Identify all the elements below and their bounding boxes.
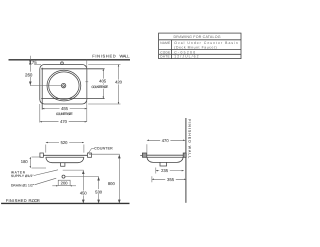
finished wall line (plan) xyxy=(9,59,131,61)
dim 180 xyxy=(29,157,31,168)
basin rim outline (plan) xyxy=(40,65,87,105)
dim 75 / 260 shared vertical xyxy=(29,56,31,86)
counter right cut cap (front) xyxy=(88,153,92,157)
dim 470 (side) xyxy=(147,139,185,141)
svg-text:180: 180 xyxy=(21,159,29,164)
dim 420 xyxy=(118,65,120,105)
svg-text:FINISHED: FINISHED xyxy=(6,198,27,203)
faucet hole xyxy=(61,62,64,65)
rim bottom line (front) xyxy=(46,156,84,158)
counter leader xyxy=(88,149,94,153)
cut-out right edge extension line (wall to 470 dim) xyxy=(86,60,88,122)
svg-text:520: 520 xyxy=(61,140,69,145)
counter top line (side) xyxy=(147,154,186,156)
svg-text:COUNTER SIZE: COUNTER SIZE xyxy=(56,112,74,116)
svg-text:420: 420 xyxy=(115,80,123,85)
svg-text:FINISHED WALL: FINISHED WALL xyxy=(188,119,192,158)
bowl inner ellipse xyxy=(49,72,79,99)
centerline to drain xyxy=(30,85,61,87)
svg-text:450: 450 xyxy=(80,191,88,196)
water supply leader xyxy=(34,170,58,176)
dim 235 extension xyxy=(155,168,157,174)
dim 470 xyxy=(40,121,87,123)
supply height line + dim 530 xyxy=(65,177,98,204)
dim 355 extension xyxy=(151,176,153,182)
dim 470 (side) extension xyxy=(146,144,148,152)
rim bottom line (side) xyxy=(147,156,183,158)
svg-text:405: 405 xyxy=(99,79,107,84)
table header text xyxy=(174,35,221,39)
dim text 260 xyxy=(25,72,34,77)
svg-text:COUNTER: COUNTER xyxy=(94,146,113,150)
drain stub (side) xyxy=(160,162,167,166)
svg-text:FINISHED: FINISHED xyxy=(92,54,116,59)
svg-text:235: 235 xyxy=(161,168,169,173)
counter overhang tick xyxy=(140,154,142,156)
svg-text:75: 75 xyxy=(32,60,37,65)
table row values xyxy=(174,41,238,59)
table row labels xyxy=(160,41,170,59)
counter cut-out left edge / 455 extension xyxy=(41,68,43,110)
counter top line (front) xyxy=(43,154,87,156)
svg-text:(Deck Mount Faucet): (Deck Mount Faucet) xyxy=(174,46,216,50)
svg-text:200: 200 xyxy=(61,181,69,186)
dim 405 xyxy=(102,69,104,99)
dim 200 box xyxy=(58,180,70,185)
svg-text:260: 260 xyxy=(25,72,33,77)
counter cut-out top edge xyxy=(41,68,104,70)
drain stub (front) xyxy=(61,163,65,167)
dim 520 xyxy=(46,142,84,144)
420 extension lines xyxy=(88,65,120,105)
svg-text:WALL: WALL xyxy=(120,54,131,59)
counter height ext + dim 800 xyxy=(89,154,119,203)
finished floor line xyxy=(1,202,129,204)
bowl profile (side) xyxy=(147,157,183,162)
counter cut-out bottom edge xyxy=(41,98,104,100)
svg-text:800: 800 xyxy=(108,181,116,186)
dim 355 xyxy=(152,178,186,180)
dim 235 xyxy=(156,170,184,172)
svg-text:DATE: DATE xyxy=(160,55,170,59)
counter left cut cap (front) xyxy=(40,153,44,157)
470 left extension xyxy=(39,104,41,123)
bowl outer ellipse xyxy=(47,70,81,101)
finished wall line (side) xyxy=(185,118,187,203)
drain leader xyxy=(35,178,57,185)
drain hole xyxy=(61,83,65,87)
svg-text:470: 470 xyxy=(60,119,68,124)
svg-text:DRAIN Ø1 1/2": DRAIN Ø1 1/2" xyxy=(11,183,34,187)
counter left cap (side) xyxy=(142,153,146,157)
rim top extension (75 dim) xyxy=(34,64,41,66)
svg-text:455: 455 xyxy=(61,106,69,111)
svg-text:DRAWING FOR CATALOG: DRAWING FOR CATALOG xyxy=(174,35,221,39)
svg-text:FLOOR: FLOOR xyxy=(29,198,40,203)
svg-text:530: 530 xyxy=(95,189,103,194)
svg-text:355: 355 xyxy=(167,177,175,182)
supply circle xyxy=(62,175,65,178)
svg-text:470: 470 xyxy=(162,138,170,143)
dim 180 extensions xyxy=(32,157,47,168)
dim 520 extensions xyxy=(46,145,84,153)
bowl profile (front) xyxy=(46,157,84,162)
table frame xyxy=(159,33,241,59)
svg-text:NAME: NAME xyxy=(160,41,170,45)
svg-text:COUNTER SIZE: COUNTER SIZE xyxy=(91,85,109,89)
dim 455 xyxy=(42,108,87,110)
tick on extension line xyxy=(85,81,88,83)
svg-text:12/JUL/62: 12/JUL/62 xyxy=(174,55,198,59)
drain height line + dim 450 xyxy=(63,170,84,203)
svg-text:SUPPLY Ø1/2": SUPPLY Ø1/2" xyxy=(11,174,34,178)
counter right cap (side) xyxy=(183,153,186,157)
